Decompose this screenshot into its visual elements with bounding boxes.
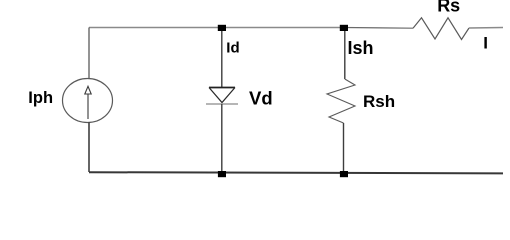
node junction bottom diode [218,171,226,177]
node junction top shunt [340,25,348,31]
wire top bus from left corner to diode node [89,27,222,29]
current source arrow [85,86,91,119]
wire from shunt node to resistor Rs [344,27,413,30]
diode D1 anode lead [221,31,223,87]
svg-text:I: I [483,33,488,52]
wire bottom bus [89,172,503,173]
diode D1 cathode bar [206,103,238,105]
resistor Rsh bottom lead [343,123,345,172]
diode D1 cathode lead [221,104,223,172]
resistor Rsh zigzag [327,79,355,123]
svg-text:Iph: Iph [28,89,53,107]
svg-text:Ish: Ish [348,38,374,58]
resistor Rsh top lead [344,31,346,79]
node junction top diode [218,25,226,31]
svg-text:Rsh: Rsh [363,92,395,111]
wire left vertical upper [88,28,90,79]
diode D1 triangle [209,87,235,89]
wire from resistor Rs to right output [469,27,503,30]
svg-text:Vd: Vd [249,87,273,108]
svg-text:Id: Id [226,40,239,57]
node junction bottom shunt [340,171,348,177]
wire left vertical lower [88,123,90,173]
wire top bus from diode node to shunt node [222,27,344,29]
resistor Rs [413,18,469,40]
current source U1 circle [63,79,113,123]
svg-text:Rs: Rs [437,0,460,15]
